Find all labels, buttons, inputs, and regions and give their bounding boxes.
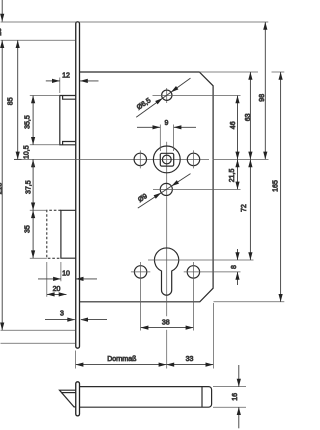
svg-text:21,5: 21,5 [229, 168, 236, 182]
svg-text:63: 63 [245, 113, 252, 121]
svg-text:72: 72 [241, 204, 248, 212]
fixing hole lower left [134, 266, 146, 278]
dimension 46 [237, 96, 239, 160]
extension line latch top left [30, 95, 60, 97]
svg-text:8: 8 [231, 265, 238, 269]
lock case outline [79, 72, 213, 302]
dimension 20 [47, 293, 67, 295]
extension line faceplate left down [75, 351, 77, 369]
extension line top screw axis [1, 39, 76, 41]
dimension 37.5 [32, 159, 34, 210]
dimension 35.5 [32, 96, 34, 145]
extension line deadbolt bottom [30, 257, 47, 259]
svg-text:3: 3 [60, 311, 64, 318]
dimension Dornmass [76, 364, 167, 366]
Ø6.5 leader upper arrow [136, 78, 190, 117]
dimension 33 [166, 364, 213, 366]
extension line case bottom right [214, 301, 285, 303]
extension line deadbolt top [30, 209, 47, 211]
dimension (cut) left edge top [1, 0, 3, 330]
vertical centerline [166, 88, 168, 103]
dimension 12 [46, 80, 60, 82]
dimension 10.5 [32, 159, 34, 168]
bottom view: lock case bar [79, 387, 211, 408]
dimension 63 [249, 72, 251, 159]
svg-text:16: 16 [232, 393, 239, 401]
svg-text:35,5: 35,5 [24, 115, 31, 129]
dimension 38 [141, 327, 194, 329]
svg-text:Ø6,5: Ø6,5 [136, 97, 153, 111]
svg-text:10,5: 10,5 [24, 145, 31, 159]
follower horizontal centerline [14, 158, 209, 160]
extension line latch bottom left [30, 144, 60, 146]
dimension 21.5 [237, 159, 239, 189]
svg-text:98: 98 [259, 94, 266, 102]
dimension 9 [137, 126, 160, 128]
follower side hole left [134, 153, 146, 165]
deadbolt hidden (dashed) [47, 210, 61, 258]
extension line follower axis right [213, 158, 269, 160]
Ø9 leader upper arrow [138, 174, 191, 209]
dimension 3 [45, 319, 68, 321]
follower outer circle [153, 146, 180, 173]
svg-text:12: 12 [62, 73, 70, 80]
extension line deadbolt solid-edge down [60, 262, 62, 281]
screw hole Ø6.5 [162, 90, 172, 100]
svg-text:38: 38 [162, 319, 170, 326]
svg-text:20: 20 [53, 286, 61, 293]
euro profile cylinder hole [155, 248, 179, 295]
follower inner circle [162, 155, 171, 164]
latch bolt [60, 96, 76, 145]
svg-text:35: 35 [24, 225, 31, 233]
svg-text:13: 13 [0, 28, 3, 36]
svg-text:85: 85 [7, 97, 14, 105]
svg-text:165: 165 [273, 180, 280, 192]
dimension 165 [280, 72, 282, 302]
cylinder horizontal centerline / ext to 8 dim [148, 259, 254, 261]
faceplate [76, 22, 80, 348]
extension lines for 9 dim [159, 125, 161, 152]
bottom view: latch bevel [60, 390, 76, 407]
dimension 8 [237, 249, 239, 260]
svg-text:210: 210 [0, 183, 3, 195]
hole Ø9 [160, 183, 172, 195]
svg-text:33: 33 [186, 356, 194, 363]
follower square [160, 153, 173, 166]
extension line latch left edge up [59, 78, 61, 94]
dimension 85 [17, 40, 19, 159]
Ø9 leader lower arrow [154, 193, 162, 199]
svg-text:37,5: 37,5 [25, 180, 32, 194]
extension line case right down [212, 303, 214, 369]
follower side hole right [187, 153, 199, 165]
bottom view: faceplate tab [76, 382, 80, 416]
extension line near faceplate bottom [1, 342, 76, 344]
extension line case top (to 165/63 dims) [199, 71, 258, 73]
Ø9 horizontal centerline / ext to 21.5 dim [153, 188, 241, 190]
dimension 35 [32, 210, 34, 258]
svg-text:Dornmaß: Dornmaß [107, 356, 136, 363]
svg-text:46: 46 [230, 121, 237, 129]
Ø6.5 leader lower arrow [155, 98, 163, 104]
svg-text:10: 10 [62, 270, 70, 277]
Ø6.5 horizontal centerline / ext to 46 dim [153, 95, 241, 97]
deadbolt solid head [61, 210, 76, 258]
fixing hole lower right [187, 266, 199, 278]
extension line deadbolt dashed-edge down [46, 262, 48, 297]
dimension 10 [38, 278, 61, 280]
dimension 72 [249, 159, 251, 260]
dimension 16 [213, 386, 246, 388]
extension line faceplate top [1, 21, 269, 23]
svg-text:9: 9 [164, 120, 168, 127]
dimension 98 [264, 22, 266, 159]
extension line bottom screw axis [1, 329, 76, 331]
